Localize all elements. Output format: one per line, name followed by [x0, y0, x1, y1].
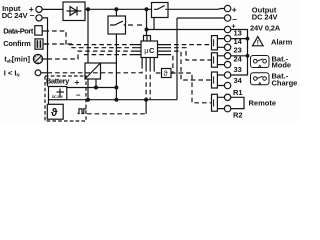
- svg-text:–: –: [30, 10, 35, 20]
- svg-text:DC 24V: DC 24V: [2, 11, 28, 20]
- svg-text:µC: µC: [144, 46, 155, 55]
- svg-text:34: 34: [234, 76, 243, 85]
- svg-text:23: 23: [234, 46, 242, 55]
- svg-text:13: 13: [234, 28, 242, 37]
- svg-text:Data-Port: Data-Port: [3, 26, 34, 35]
- svg-text:+: +: [75, 77, 80, 87]
- svg-text:24: 24: [234, 55, 243, 64]
- svg-text:Confirm: Confirm: [3, 39, 31, 48]
- svg-text:Battery: Battery: [46, 77, 70, 86]
- svg-text:ϑ: ϑ: [51, 107, 58, 119]
- svg-text:Mode: Mode: [272, 60, 292, 69]
- svg-text:24V 0,2A: 24V 0,2A: [250, 24, 281, 33]
- svg-text:R1: R1: [233, 88, 243, 97]
- svg-text:Alarm: Alarm: [271, 37, 293, 46]
- svg-text:!: !: [257, 40, 259, 47]
- svg-text:DC 24V: DC 24V: [252, 13, 278, 22]
- svg-text:+: +: [232, 4, 237, 14]
- svg-text:Charge: Charge: [272, 79, 298, 88]
- svg-text:Remote: Remote: [249, 98, 277, 107]
- svg-text:DC 24V: DC 24V: [52, 95, 64, 99]
- svg-text:–: –: [76, 90, 81, 99]
- svg-text:33: 33: [234, 65, 242, 74]
- svg-text:R2: R2: [233, 110, 243, 119]
